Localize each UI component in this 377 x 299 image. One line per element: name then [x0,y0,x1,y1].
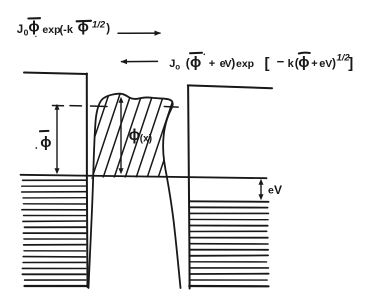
right electrode left edge [188,85,190,288]
svg-text:ϕ: ϕ [298,54,309,71]
svg-text:(-k: (-k [60,24,74,36]
svg-text:ϕ: ϕ [28,19,39,36]
small dot under first phi line 1 [35,36,36,37]
overbar of phi in line 2 second [299,52,310,55]
svg-text:): ) [231,56,235,70]
apostrophe tick after first overbar line 2 [204,54,206,56]
right electrode filled-state hatching [189,207,268,280]
left electrode filled-state hatching [22,180,86,280]
svg-text:exp: exp [236,58,254,70]
right electrode Fermi level (top hatch line) [189,200,268,203]
phi-bar label [40,134,51,151]
svg-text:ϕ: ϕ [190,54,201,71]
phi-bar measuring arrow (left) [55,104,60,175]
svg-text:J: J [17,24,23,36]
svg-text:o: o [175,62,180,71]
svg-text:k: k [288,58,295,70]
barrier hump outline [89,94,181,288]
overbar of second phi in line 1 [77,20,91,23]
svg-text:ϕ: ϕ [129,127,141,144]
barrier diagonal hatching [70,91,198,178]
overbar of first phi in line 1 [28,17,40,19]
svg-text:]: ] [348,55,353,72]
svg-text:ϕ: ϕ [40,134,51,151]
svg-text:+: + [209,58,215,70]
equation line 2: J0 (phi-bar + eV) exp[-k(phi-bar + eV)^1/2] [169,53,353,73]
svg-text:): ) [106,23,110,35]
arrow left (reverse current) [121,59,158,64]
eV label [268,183,282,197]
svg-text:V: V [274,183,282,197]
svg-text:exp: exp [42,24,60,36]
phi(x) measuring arrow [119,97,124,175]
left electrode bottom edge [25,285,88,287]
phi(x) label [129,127,152,145]
svg-text:−: − [277,54,285,69]
svg-text:(x): (x) [140,134,152,145]
dashed barrier-mean-height line [53,106,179,108]
svg-text:[: [ [265,55,270,72]
equation top-left: J0 phi-bar exp(-k phi-bar ^1/2) [17,19,110,38]
Fermi level line (left electrode, continues to eV arrow) [21,175,267,178]
svg-text:): ) [332,56,336,70]
svg-text:+: + [311,58,317,70]
left electrode top edge [24,73,87,75]
right electrode top edge [188,85,272,88]
arrow right (forward current) [118,30,161,35]
overbar of phi in line 2 first [190,52,202,54]
right electrode bottom edge [189,285,268,287]
left electrode right edge [86,74,89,288]
eV measuring arrow [259,179,264,201]
svg-text:1/2: 1/2 [92,20,106,31]
